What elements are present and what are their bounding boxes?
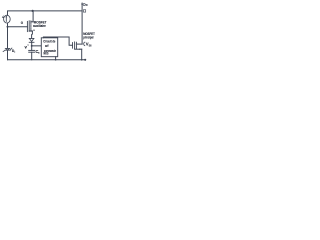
capacitor Ca plates [29,49,35,51]
arrow inside current source [5,16,7,18]
wire aux source tap [29,30,32,32]
wire main drain tap [76,43,82,45]
diode D cathode bar [29,41,34,43]
svg-text:principal: principal [83,34,93,39]
transistor main MOSFET gate bar [72,43,74,49]
box circuit de controle [41,38,57,57]
terminal square on rail level [83,10,85,12]
node dot gate junction [7,26,9,28]
svg-text:DS: DS [89,44,92,47]
wire cap to bottom rail [31,52,33,60]
wire box ground stub [55,57,57,60]
svg-text:auxiliaire: auxiliaire [33,23,46,28]
wire aux drain tap [31,21,33,23]
transistor main MOSFET body bar [74,42,76,49]
wire main source lead down to rail [81,49,83,60]
transistor aux MOSFET body bar [28,21,30,32]
brace of VDS [84,42,86,46]
current source I1 [4,15,11,23]
wire main source tap [75,48,82,50]
svg-text:D: D [86,3,88,7]
node dot main source on rail [81,59,83,61]
wire node to box [32,45,42,47]
arrow main MOSFET source tap [79,48,81,50]
arrow aux MOSFET source tap [30,30,32,32]
wire below current source down to zener [7,23,9,48]
wire diode to cap node [31,42,33,50]
wire zener to bottom rail [7,50,9,60]
terminal circle top [83,3,85,5]
label i of current source [2,16,4,18]
wire main drain lead up to terminal [81,3,83,44]
svg-text:MOS: MOS [44,52,49,56]
node dot aux drain on rail [31,10,33,12]
zener diode Dz triangle [6,48,10,50]
wire top rail [8,11,83,15]
transistor aux MOSFET channel dashes [30,21,32,24]
transistor main MOSFET channel dashes [75,42,77,44]
diode D anode triangle [29,38,34,41]
wire box to main gate [43,37,72,45]
node dot diode-cap-box [31,45,33,47]
transistor aux MOSFET gate bar [26,21,28,31]
zener diode Dz bar with tails [5,49,10,51]
svg-text:G: G [21,20,23,25]
wire aux source down to diode [31,31,34,38]
wire aux drain lead [32,11,34,22]
node dot source terminal end [84,59,86,61]
svg-text:s: s [33,28,35,32]
node dot box ground on rail [55,59,57,61]
wire bottom rail [8,59,86,61]
arrow at drain terminal top [81,2,83,4]
wire gate of aux MOSFET [8,26,28,28]
svg-text:Circuit de: Circuit de [43,38,56,43]
